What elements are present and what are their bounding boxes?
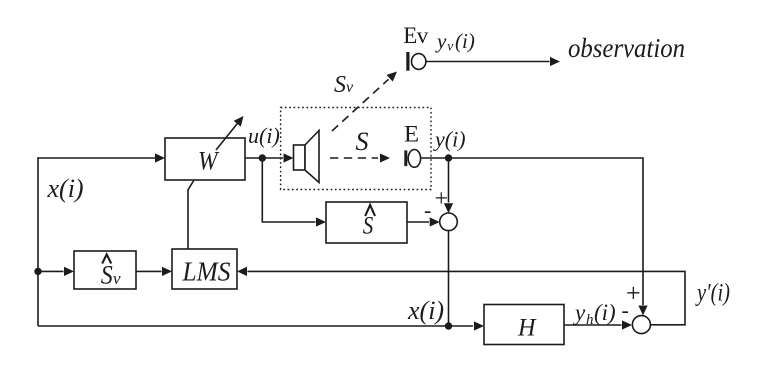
wire y(i) right and down into summing junction 2	[449, 158, 648, 316]
label yv(i)	[435, 29, 475, 54]
label minus at summing junction 2	[622, 298, 629, 323]
svg-text:v: v	[346, 79, 354, 96]
label H	[517, 315, 537, 342]
microphone Ev	[406, 52, 426, 71]
wire S-hat to summing junction 1	[407, 217, 440, 226]
svg-text:x(i): x(i)	[407, 296, 444, 325]
svg-text:u(i): u(i)	[248, 123, 280, 148]
svg-text:(i): (i)	[455, 29, 475, 53]
svg-text:observation: observation	[568, 33, 685, 63]
label x(i) left	[47, 174, 84, 203]
label observation	[568, 33, 685, 63]
svg-text:Ev: Ev	[403, 23, 429, 48]
svg-text:h: h	[586, 312, 594, 328]
node on x(i) line	[445, 322, 452, 329]
svg-text:W: W	[198, 147, 220, 176]
svg-text:(i): (i)	[594, 300, 616, 325]
label y(i)	[433, 127, 466, 152]
dotted acoustic-plant box	[281, 108, 431, 190]
label Sv on dashed arrow	[334, 72, 354, 98]
svg-text:y: y	[573, 300, 586, 325]
wire node to Sv-hat	[38, 267, 74, 276]
label W	[198, 147, 220, 176]
wire u(i) node down to S-hat	[262, 158, 326, 227]
label y'(i) feedback	[695, 280, 730, 307]
svg-text:S: S	[356, 127, 369, 156]
wire H to summing junction 2	[564, 320, 632, 329]
wire W bottom to LMS top	[188, 180, 194, 249]
svg-text:v: v	[447, 39, 453, 54]
wire summing junction 1 down to x(i) line	[448, 231, 450, 326]
label S-hat in box	[363, 205, 375, 240]
box LMS	[172, 249, 237, 289]
wire y(i) down into summing junction 1	[444, 158, 453, 213]
label yh(i)	[573, 300, 616, 328]
box H	[484, 305, 564, 345]
label LMS in box	[182, 257, 231, 287]
wire Ev to observation	[426, 57, 560, 66]
svg-text:+: +	[435, 186, 449, 212]
label u(i)	[248, 123, 280, 148]
svg-text:y(i): y(i)	[433, 127, 466, 152]
adaptive arrow through W	[216, 116, 244, 150]
node y(i) junction	[445, 154, 452, 161]
dashed path Sv arrow	[332, 72, 397, 132]
svg-text:H: H	[517, 315, 537, 342]
box S-hat	[326, 202, 407, 243]
svg-text:S: S	[363, 213, 374, 240]
summing junction 1	[440, 213, 458, 231]
svg-text:y′(i): y′(i)	[695, 280, 730, 307]
box W	[165, 138, 245, 180]
label plus at summing junction 2	[626, 279, 641, 308]
dashed path S arrow	[330, 153, 390, 162]
label x(i) near H	[407, 296, 444, 325]
wire mic E to y(i) node	[421, 157, 449, 159]
svg-text:y: y	[435, 29, 447, 53]
microphone E	[404, 150, 420, 168]
box Sv-hat	[74, 251, 136, 289]
svg-text:-: -	[424, 198, 431, 223]
svg-text:S: S	[334, 72, 346, 98]
wire W to loudspeaker u(i)	[245, 153, 294, 162]
summing junction 2	[632, 316, 650, 334]
wire y'(i) feedback to LMS	[237, 267, 685, 325]
svg-text:S: S	[101, 261, 113, 290]
svg-text:LMS: LMS	[182, 257, 231, 287]
svg-text:x(i): x(i)	[47, 174, 84, 203]
node u(i) junction	[259, 154, 266, 161]
label Sv-hat in box	[101, 254, 121, 289]
label plus at summing junction 1	[435, 186, 449, 212]
wire input x(i) into W	[38, 153, 165, 162]
svg-text:v: v	[113, 269, 121, 288]
label minus at summing junction 1	[424, 198, 431, 223]
wire left vertical x(i) bus	[37, 157, 39, 326]
node x(i) to Sv-hat junction	[34, 268, 41, 275]
wire bottom horizontal x(i) to H	[38, 321, 484, 330]
svg-text:+: +	[626, 279, 641, 308]
label S on dashed arrow	[356, 127, 369, 156]
label E	[404, 122, 419, 147]
loudspeaker	[294, 131, 320, 183]
svg-text:E: E	[404, 122, 419, 147]
wire Sv-hat to LMS	[136, 267, 172, 276]
label Ev	[403, 23, 429, 48]
